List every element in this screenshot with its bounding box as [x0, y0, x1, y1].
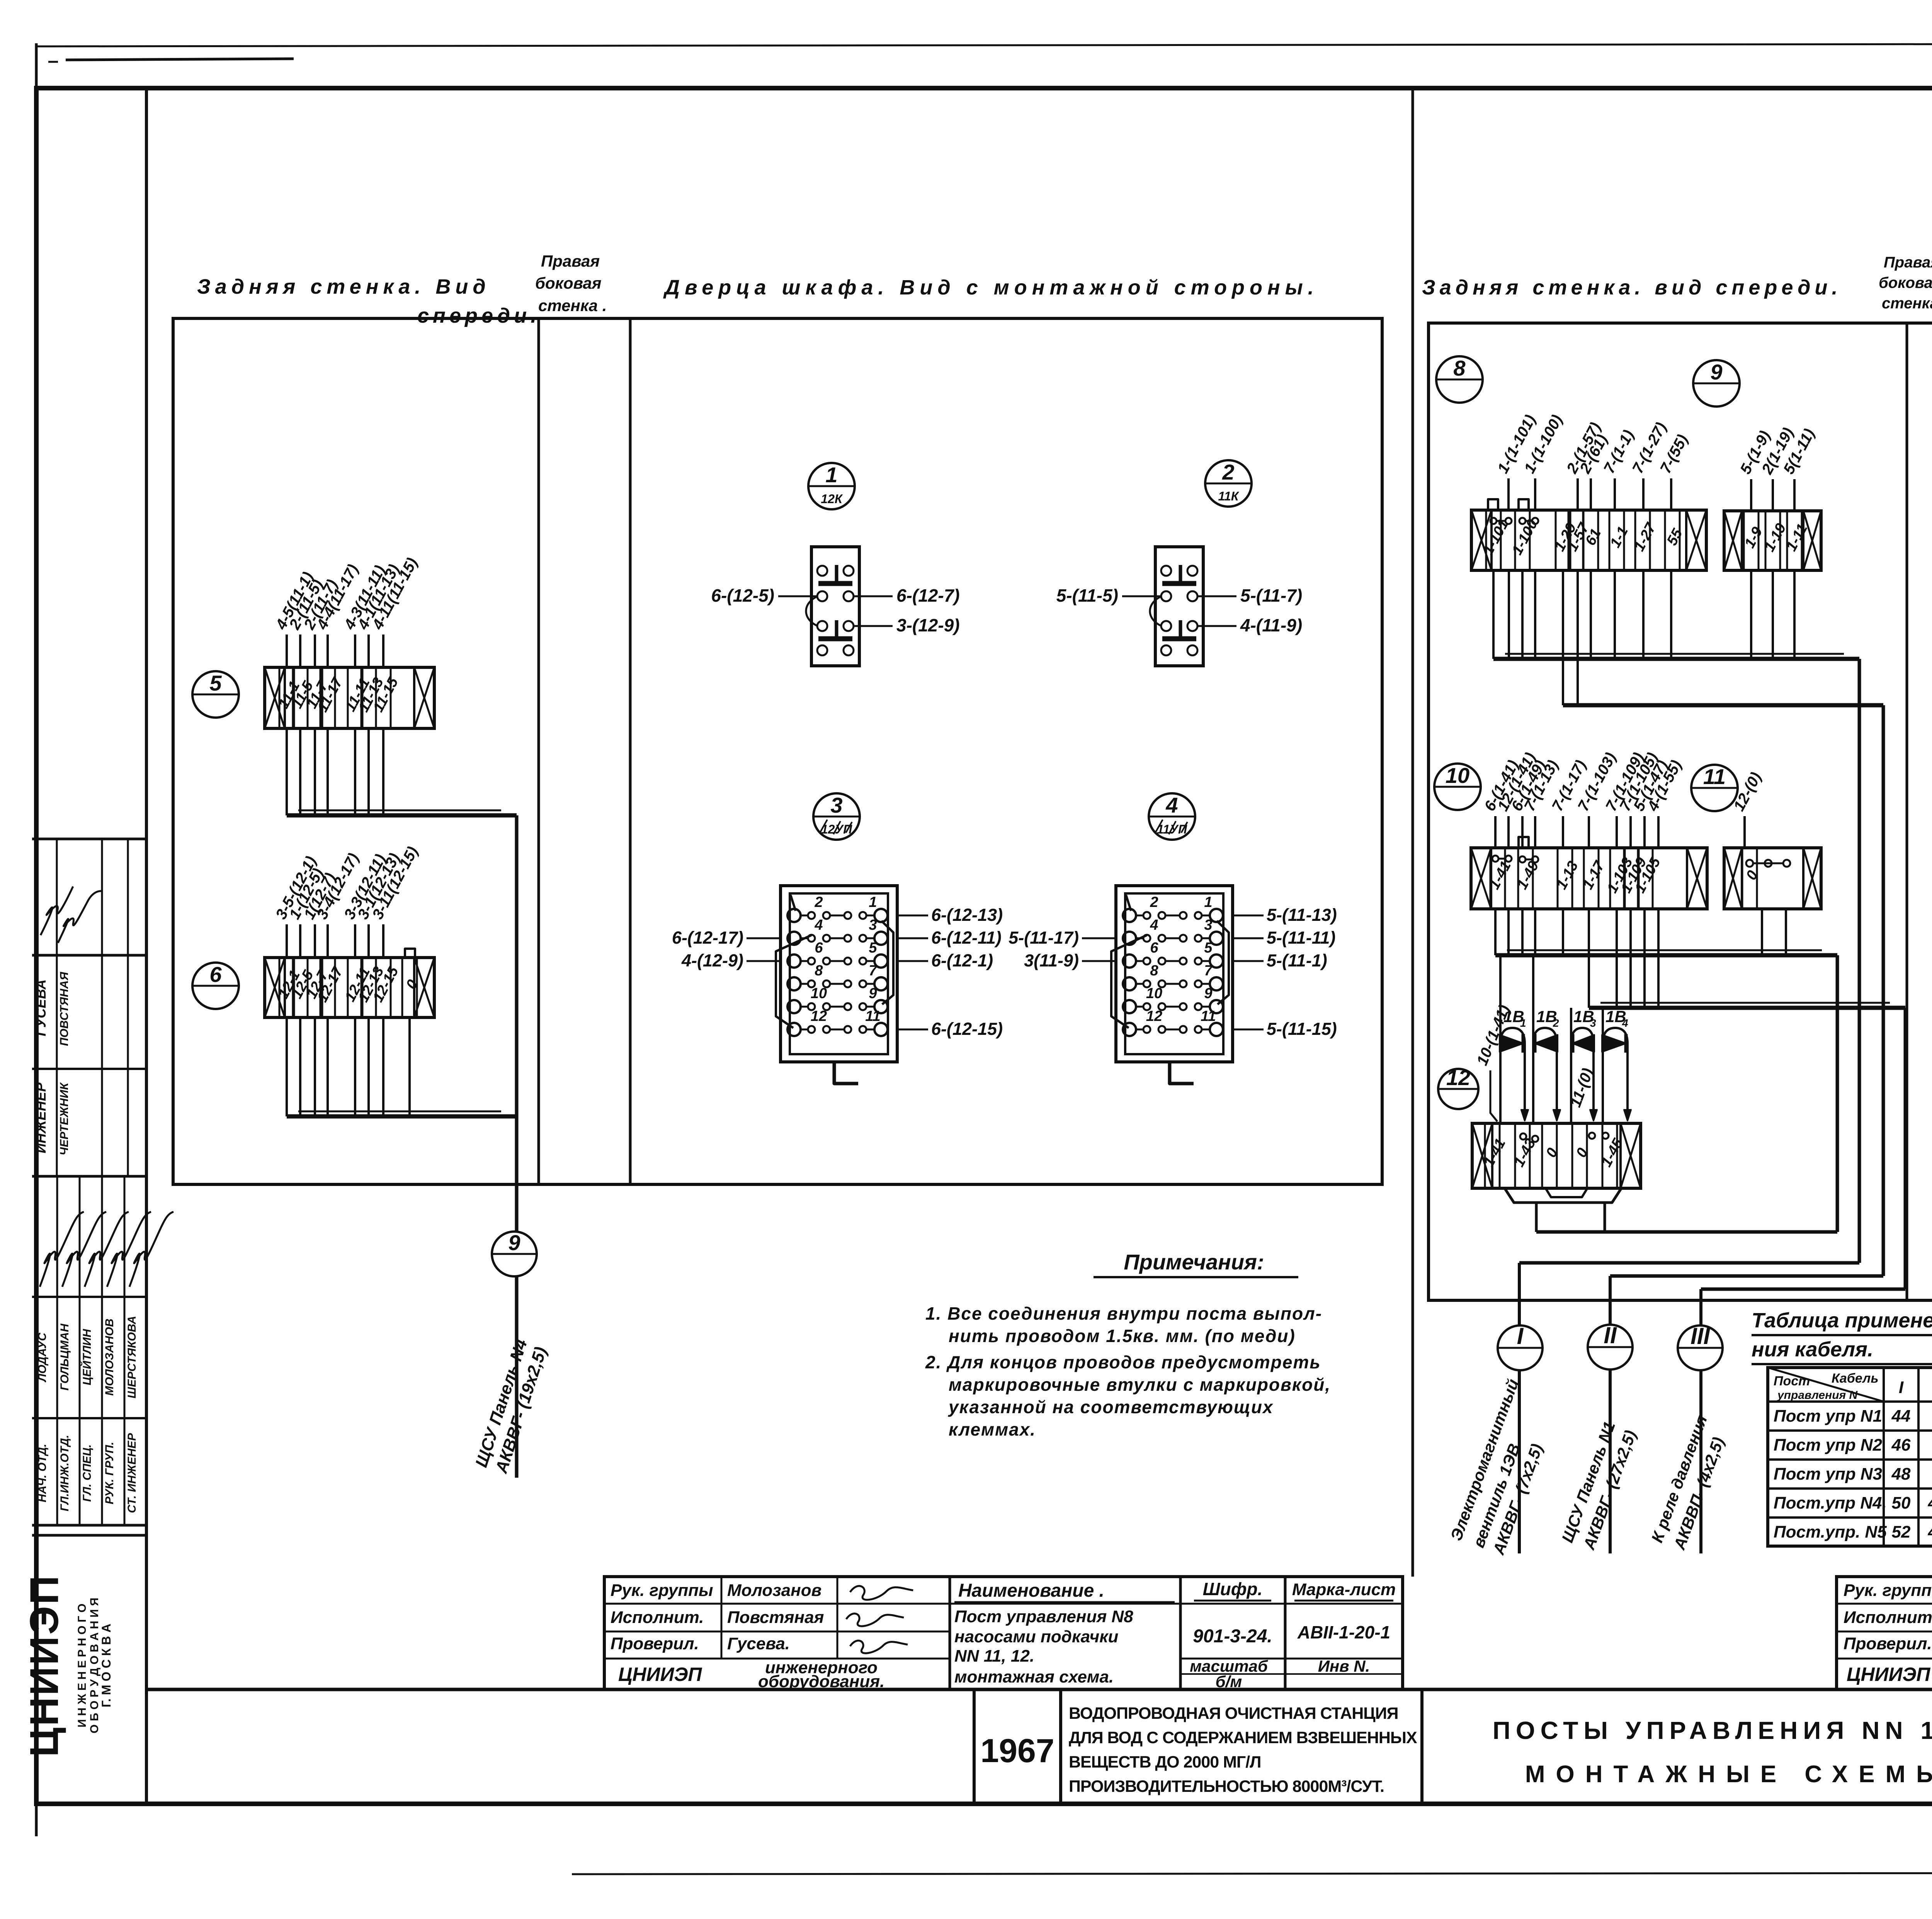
svg-text:6-(12-15): 6-(12-15): [931, 1019, 1003, 1039]
svg-text:боковая: боковая: [1879, 274, 1932, 291]
svg-text:6-(12-13): 6-(12-13): [931, 905, 1003, 925]
svg-text:Задняя стенка. Вид: Задняя стенка. Вид: [197, 275, 490, 298]
svg-text:10: 10: [811, 985, 827, 1002]
ground bracket above block 6 zero cell: [405, 949, 415, 958]
svg-text:III: III: [1690, 1323, 1710, 1349]
svg-text:5-(11-11): 5-(11-11): [1267, 928, 1335, 948]
svg-text:50: 50: [1892, 1494, 1911, 1512]
cable application table: [1768, 1368, 1932, 1546]
svg-text:ния кабеля.: ния кабеля.: [1752, 1338, 1873, 1361]
svg-text:3: 3: [830, 793, 842, 817]
wire H2 to cable I: [1519, 1261, 1859, 1265]
terminal block 8: [1471, 510, 1706, 570]
svg-text:8: 8: [1150, 963, 1158, 979]
position circle 8: [1436, 356, 1483, 403]
svg-text:Кабель: Кабель: [1832, 1371, 1879, 1386]
wire H4 to cable III: [1701, 1288, 1905, 1291]
cable circle 9 left: [492, 1232, 537, 1276]
svg-text:Проверил.: Проверил.: [611, 1634, 699, 1653]
svg-text:901-3-24.: 901-3-24.: [1193, 1626, 1272, 1647]
wire H1 bundle to block 12: [1536, 1230, 1837, 1234]
svg-text:ДЛЯ ВОД С СОДЕРЖАНИЕМ ВЗВЕШЕНН: ДЛЯ ВОД С СОДЕРЖАНИЕМ ВЗВЕШЕННЫХ: [1069, 1728, 1417, 1747]
svg-text:монтажная схема.: монтажная схема.: [954, 1667, 1114, 1686]
svg-text:11: 11: [1703, 764, 1726, 789]
svg-text:ИНЖЕНЕР: ИНЖЕНЕР: [33, 1082, 49, 1153]
svg-text:1: 1: [1520, 1017, 1526, 1029]
svg-text:РУК. ГРУП.: РУК. ГРУП.: [103, 1442, 116, 1504]
svg-text:ЧЕРТЕЖНИК: ЧЕРТЕЖНИК: [58, 1082, 71, 1155]
svg-text:Пост упр N2: Пост упр N2: [1774, 1436, 1883, 1455]
svg-text:6-(12-1): 6-(12-1): [931, 951, 993, 970]
svg-text:клеммах.: клеммах.: [949, 1419, 1036, 1439]
svg-text:Рук. группы: Рук. группы: [1844, 1581, 1932, 1600]
svg-text:3(11-9): 3(11-9): [1024, 951, 1079, 970]
wires above terminal block 10 with labels: [1494, 816, 1497, 848]
sidebar signatures lower: [40, 1212, 84, 1287]
svg-text:11: 11: [1201, 1008, 1216, 1024]
wire pair below terminal block 8 to bundle B: [1563, 703, 1883, 708]
svg-text:ЦНИИЭП: ЦНИИЭП: [22, 1574, 67, 1757]
wires below terminal block 9 join bundle A: [1750, 570, 1752, 659]
svg-text:Гусева.: Гусева.: [727, 1634, 790, 1653]
svg-text:5: 5: [869, 940, 877, 956]
position circle 9 right: [1693, 360, 1740, 407]
svg-text:1967: 1967: [980, 1732, 1054, 1769]
svg-text:5: 5: [209, 671, 222, 695]
left cabinet box: [173, 318, 1382, 1184]
svg-text:Молозанов: Молозанов: [727, 1581, 821, 1600]
terminal block 6: [265, 958, 434, 1017]
position circle 12: [1438, 1069, 1478, 1109]
svg-text:АВII-1-20-1: АВII-1-20-1: [1297, 1622, 1390, 1642]
position circle 11: [1691, 765, 1738, 811]
svg-text:Пост: Пост: [1774, 1374, 1810, 1388]
svg-text:ЦНИИЭП: ЦНИИЭП: [1847, 1664, 1930, 1685]
svg-text:46: 46: [1891, 1436, 1911, 1455]
wire V4 riser: [1904, 1008, 1907, 1289]
wires below terminal block 6 to bundle: [287, 1114, 517, 1119]
diodes 1В1-1В4 with wires: [1499, 955, 1502, 1035]
wires below terminal block 11 join bundle C: [1761, 909, 1763, 955]
svg-text:ГУСЕВА: ГУСЕВА: [33, 979, 49, 1036]
svg-text:Примечания:: Примечания:: [1124, 1250, 1264, 1274]
svg-text:9: 9: [869, 985, 877, 1002]
cable III drop wire: [1699, 1289, 1702, 1325]
svg-text:ГЛ.ИНЖ.ОТД.: ГЛ.ИНЖ.ОТД.: [58, 1435, 71, 1511]
svg-text:11К: 11К: [1218, 489, 1240, 503]
svg-text:6-(12-17): 6-(12-17): [672, 928, 743, 948]
svg-text:Пост.упр N4.: Пост.упр N4.: [1774, 1494, 1887, 1512]
left cabinet divider 1: [537, 318, 540, 1184]
svg-text:нить проводом 1.5кв. мм. (: нить проводом 1.5кв. мм. (по меди): [949, 1326, 1296, 1346]
svg-text:2. Для концов проводов пре: 2. Для концов проводов предусмотреть: [925, 1352, 1321, 1372]
svg-text:I: I: [1899, 1378, 1904, 1397]
sheet outer edge top line: [36, 43, 1932, 46]
svg-text:6-(12-11): 6-(12-11): [931, 928, 1002, 948]
svg-text:Пост упр N3: Пост упр N3: [1774, 1465, 1882, 1483]
svg-text:12: 12: [811, 1008, 827, 1024]
svg-text:ПОСТЫ УПРАВЛЕНИЯ NN 1(2÷5) и 8: ПОСТЫ УПРАВЛЕНИЯ NN 1(2÷5) и 8.: [1493, 1717, 1932, 1744]
svg-text:2: 2: [1222, 460, 1234, 484]
wires above terminal block 8 with labels: [1507, 478, 1510, 510]
svg-text:42: 42: [1928, 1494, 1932, 1512]
svg-text:5-(11-17): 5-(11-17): [1009, 928, 1079, 948]
svg-text:Марка-лист: Марка-лист: [1292, 1580, 1396, 1599]
svg-text:Таблица примене-: Таблица примене-: [1752, 1309, 1932, 1332]
cable circle II: [1588, 1325, 1633, 1369]
svg-text:насосами подкачки: насосами подкачки: [954, 1627, 1119, 1646]
svg-text:4: 4: [1165, 793, 1178, 817]
svg-text:6-(12-5): 6-(12-5): [711, 585, 774, 606]
svg-text:Шифр.: Шифр.: [1203, 1579, 1263, 1599]
svg-text:12: 12: [1446, 1065, 1470, 1090]
wire V1 riser: [1836, 955, 1839, 1232]
jumper lug on terminal block 10: [1519, 837, 1529, 848]
svg-text:6: 6: [209, 962, 222, 987]
center divider line between sheet halves: [1412, 88, 1414, 1577]
wire above terminal block 11 with label: [1743, 816, 1746, 848]
svg-text:1: 1: [825, 463, 837, 487]
svg-text:Исполнит.: Исполнит.: [1844, 1608, 1932, 1627]
svg-text:6: 6: [1150, 940, 1158, 956]
wire V2 riser: [1858, 659, 1861, 1263]
svg-text:Правая: Правая: [1884, 254, 1932, 271]
svg-text:12: 12: [1146, 1008, 1162, 1024]
svg-text:ГЛ. СПЕЦ.: ГЛ. СПЕЦ.: [81, 1444, 94, 1502]
svg-text:3-(12-9): 3-(12-9): [896, 615, 960, 635]
terminal block 11: [1724, 848, 1821, 909]
svg-text:I: I: [1517, 1323, 1524, 1349]
left title stamp: [604, 1577, 1403, 1689]
wires above terminal block 5 with labels: [286, 635, 288, 667]
svg-text:NN 11, 12.: NN 11, 12.: [954, 1647, 1034, 1666]
cable II drop wire: [1609, 1276, 1612, 1325]
sheet bottom paper edge line: [572, 1873, 1932, 1874]
wire into block 12 left: [1490, 1070, 1497, 1121]
svg-text:5-(11-5): 5-(11-5): [1056, 585, 1118, 606]
sidebar signature table upper: [32, 838, 146, 840]
svg-text:Проверил.: Проверил.: [1844, 1634, 1932, 1653]
wire V3 riser: [1882, 705, 1885, 1276]
svg-text:Задняя стенка. вид спереди.: Задняя стенка. вид спереди.: [1422, 276, 1842, 299]
svg-text:ШЕРСТЯКОВА: ШЕРСТЯКОВА: [126, 1316, 138, 1398]
wires below terminal block 10 to bundle C: [1495, 953, 1837, 958]
svg-text:9: 9: [1204, 985, 1212, 1002]
left cabinet divider 2: [629, 318, 632, 1184]
wires below terminal block 8 to bundle A: [1493, 657, 1859, 661]
sheet scan mark segment: [66, 59, 294, 60]
svg-text:5-(11-1): 5-(11-1): [1267, 951, 1327, 970]
right cabinet divider 1: [1906, 323, 1908, 1300]
svg-text:Пост.упр. N5: Пост.упр. N5: [1774, 1523, 1887, 1541]
jumper lugs on terminal block 8: [1488, 499, 1498, 510]
svg-text:МОЛОЗАНОВ: МОЛОЗАНОВ: [103, 1318, 116, 1395]
svg-text:Правая: Правая: [541, 252, 600, 270]
svg-text:Г. М О С К В А: Г. М О С К В А: [99, 1624, 113, 1708]
right cabinet box: [1429, 323, 1932, 1300]
svg-text:ВЕЩЕСТВ ДО 2000 МГ/Л: ВЕЩЕСТВ ДО 2000 МГ/Л: [1069, 1753, 1261, 1771]
main cable riser to panel N4: [515, 815, 519, 1232]
svg-text:4: 4: [1622, 1017, 1628, 1029]
terminal block 10: [1471, 848, 1707, 909]
connector 3 (12УП): [813, 793, 860, 840]
jumper circles on terminal block 11: [1746, 860, 1753, 867]
svg-text:1. Все соединения внутри по: 1. Все соединения внутри поста выпол-: [925, 1303, 1322, 1324]
svg-text:ЦНИИЭП: ЦНИИЭП: [618, 1664, 702, 1685]
connector 4 (11УП): [1149, 793, 1195, 840]
svg-text:5-(11-15): 5-(11-15): [1267, 1019, 1337, 1039]
sidebar divider line: [145, 88, 148, 1804]
svg-text:1: 1: [869, 894, 877, 910]
cable circle I: [1498, 1325, 1543, 1370]
wires above terminal block 6 with labels: [286, 924, 288, 958]
svg-text:4-(12-9): 4-(12-9): [681, 951, 743, 970]
svg-text:Рук. группы: Рук. группы: [611, 1581, 713, 1600]
terminal block 5: [265, 667, 434, 728]
svg-text:ГОЛЬЦМАН: ГОЛЬЦМАН: [58, 1323, 71, 1390]
svg-text:5-(11-7): 5-(11-7): [1240, 585, 1302, 606]
svg-text:9: 9: [508, 1230, 520, 1255]
svg-text:10: 10: [1146, 985, 1162, 1002]
svg-text:8: 8: [1453, 356, 1466, 380]
svg-text:ПОВСТЯНАЯ: ПОВСТЯНАЯ: [58, 971, 71, 1046]
svg-text:И Н Ж Е Н Е Р Н О Г О: И Н Ж Е Н Е Р Н О Г О: [76, 1604, 88, 1728]
funnel below terminal block 12: [1505, 1188, 1621, 1203]
jumper circles on terminal block 12: [1520, 1133, 1526, 1140]
svg-text:управления N: управления N: [1777, 1389, 1858, 1402]
cable I drop wire: [1518, 1263, 1521, 1325]
svg-text:маркировочные втулки с марк: маркировочные втулки с маркировкой,: [949, 1375, 1331, 1395]
wires above terminal block 9 with labels: [1750, 479, 1752, 511]
position circle 5: [192, 671, 239, 718]
svg-text:44: 44: [1891, 1407, 1911, 1426]
svg-text:стенка .: стенка .: [538, 296, 607, 315]
svg-text:МОНТАЖНЫЕ СХЕМЫ.: МОНТАЖНЫЕ СХЕМЫ.: [1525, 1761, 1932, 1788]
svg-text:Дверца шкафа. Вид с монтажной: Дверца шкафа. Вид с монтажной стороны.: [663, 276, 1319, 299]
svg-text:6: 6: [815, 940, 823, 956]
wires below terminal block 5 to bundle: [287, 813, 517, 818]
wire H3 to cable II: [1610, 1274, 1883, 1278]
svg-text:7: 7: [1204, 963, 1213, 979]
position circle 10: [1434, 764, 1481, 810]
svg-text:Исполнит.: Исполнит.: [611, 1608, 704, 1627]
sidebar signatures upper: [41, 886, 73, 935]
bottom main title row: [146, 1688, 1932, 1691]
svg-text:указанной на соответствующих: указанной на соответствующих: [948, 1397, 1274, 1417]
svg-text:11: 11: [865, 1008, 880, 1024]
svg-text:Пост управления N8: Пост управления N8: [954, 1607, 1133, 1626]
svg-text:3: 3: [869, 917, 877, 933]
svg-text:спереди.: спереди.: [417, 304, 540, 327]
svg-text:6-(12-7): 6-(12-7): [896, 585, 960, 606]
svg-text:ЦЕЙТЛИН: ЦЕЙТЛИН: [80, 1329, 94, 1385]
terminal block 9: [1724, 511, 1821, 570]
svg-text:7: 7: [869, 963, 878, 979]
svg-text:Наименование .: Наименование .: [958, 1580, 1104, 1601]
svg-text:4: 4: [1150, 917, 1158, 933]
svg-text:4: 4: [814, 917, 823, 933]
svg-text:8: 8: [815, 963, 823, 979]
sidebar institute block ЦНИИЭП: [32, 1534, 146, 1537]
svg-text:Инв N.: Инв N.: [1318, 1657, 1370, 1675]
svg-text:3: 3: [1204, 917, 1212, 933]
svg-text:10: 10: [1446, 763, 1469, 788]
svg-text:ЛОДАУС: ЛОДАУС: [36, 1332, 49, 1382]
svg-text:НАЧ. ОТД.: НАЧ. ОТД.: [36, 1444, 49, 1502]
wires below terminal block 10 to bundle D: [1589, 1006, 1905, 1010]
funnel riser wires block 12: [1535, 1203, 1538, 1232]
position circle 6: [192, 963, 239, 1009]
svg-text:2: 2: [1553, 1017, 1559, 1029]
svg-text:5: 5: [1204, 940, 1213, 956]
svg-text:52: 52: [1892, 1523, 1911, 1541]
sheet outer edge left line: [35, 43, 38, 1836]
svg-text:Пост упр N1: Пост упр N1: [1774, 1407, 1882, 1426]
svg-text:ПРОИЗВОДИТЕЛЬНОСТЬЮ 8000М³/СУ: ПРОИЗВОДИТЕЛЬНОСТЬЮ 8000М³/СУТ.: [1069, 1777, 1384, 1796]
sidebar signature table lower: [32, 1296, 146, 1298]
svg-text:41: 41: [1928, 1523, 1932, 1541]
terminal block 12: [1472, 1123, 1641, 1188]
svg-text:12К: 12К: [821, 492, 843, 506]
svg-text:48: 48: [1891, 1465, 1911, 1483]
svg-text:II: II: [1604, 1322, 1617, 1348]
svg-text:2: 2: [814, 894, 823, 910]
right title stamp: [1837, 1577, 1932, 1689]
svg-text:9: 9: [1710, 360, 1722, 384]
svg-text:стенка.: стенка.: [1882, 295, 1932, 312]
svg-text:2: 2: [1150, 894, 1158, 910]
svg-text:3: 3: [1590, 1017, 1596, 1029]
relay contact unit 2 (11К): [1205, 460, 1252, 507]
svg-text:Повстяная: Повстяная: [727, 1608, 824, 1627]
svg-text:1: 1: [1204, 894, 1212, 910]
svg-text:4-(11-9): 4-(11-9): [1240, 615, 1302, 635]
cable circle III: [1678, 1325, 1723, 1370]
svg-text:ВОДОПРОВОДНАЯ ОЧИСТНАЯ СТАНЦ: ВОДОПРОВОДНАЯ ОЧИСТНАЯ СТАНЦИЯ: [1069, 1704, 1398, 1723]
svg-text:СТ. ИНЖЕНЕР: СТ. ИНЖЕНЕР: [126, 1432, 138, 1513]
svg-text:боковая: боковая: [535, 274, 602, 292]
relay contact unit 1 (12К): [808, 463, 855, 509]
svg-text:5-(11-13): 5-(11-13): [1267, 905, 1337, 925]
